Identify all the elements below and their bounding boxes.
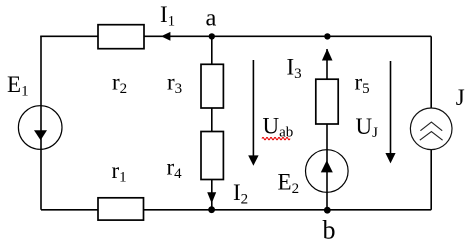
source E2 arrow bbox=[321, 160, 333, 172]
arrow I2 bbox=[207, 192, 216, 203]
node b dot bbox=[324, 207, 331, 214]
wire branch r5-E2 bbox=[326, 49, 328, 210]
resistor R2 bbox=[98, 25, 144, 49]
arrow I1 bbox=[161, 32, 170, 41]
arrow Uab line bbox=[252, 60, 254, 157]
spellcheck squiggle under Uab bbox=[262, 137, 290, 139]
svg-text:a: a bbox=[206, 4, 217, 31]
wire middle branch a-to-b bbox=[211, 36, 213, 210]
source E1 circle bbox=[18, 106, 62, 150]
svg-text:r2: r2 bbox=[112, 70, 127, 98]
svg-text:UJ: UJ bbox=[356, 114, 379, 141]
svg-text:Uab: Uab bbox=[263, 114, 294, 141]
svg-text:E2: E2 bbox=[278, 169, 300, 197]
svg-text:I3: I3 bbox=[287, 55, 302, 83]
resistor R3 bbox=[201, 64, 223, 108]
wire bottom bbox=[41, 209, 431, 211]
wire left bbox=[40, 36, 42, 210]
svg-text:r3: r3 bbox=[167, 70, 182, 98]
svg-text:E1: E1 bbox=[7, 72, 29, 100]
source E2 circle bbox=[306, 150, 349, 193]
resistor R1 bbox=[98, 198, 144, 220]
wire right upper bbox=[430, 36, 432, 109]
svg-text:r5: r5 bbox=[355, 70, 370, 98]
arrow UJ line bbox=[390, 61, 392, 155]
arrow Uab head bbox=[248, 155, 258, 165]
svg-text:r4: r4 bbox=[167, 155, 183, 183]
wire right lower bbox=[430, 149, 432, 210]
node top-right junction dot bbox=[324, 33, 330, 39]
svg-text:b: b bbox=[323, 215, 336, 244]
wire top bbox=[40, 35, 431, 37]
current source J circle bbox=[410, 108, 452, 150]
svg-text:I1: I1 bbox=[160, 2, 175, 30]
node I2 junction dot bbox=[208, 206, 215, 213]
svg-text:r1: r1 bbox=[112, 158, 127, 186]
arrow UJ head bbox=[385, 153, 395, 163]
node a dot bbox=[209, 33, 215, 39]
svg-text:J: J bbox=[456, 85, 465, 110]
resistor R4 bbox=[201, 132, 223, 180]
resistor R5 bbox=[316, 79, 338, 124]
current source J chevron upper bbox=[420, 122, 442, 131]
current source J chevron lower bbox=[420, 132, 443, 141]
arrow I3 bbox=[322, 49, 333, 61]
source E1 arrow bbox=[34, 130, 47, 140]
svg-text:I2: I2 bbox=[233, 180, 248, 208]
